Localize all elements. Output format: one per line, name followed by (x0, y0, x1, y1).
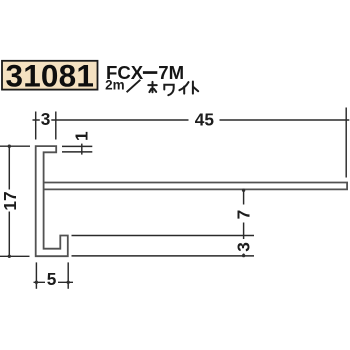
spec text 2m (105, 78, 125, 93)
extension lines of 5 dim (35, 262, 37, 288)
katakana WA (164, 85, 173, 96)
svg-text:45: 45 (195, 110, 215, 130)
svg-text:5: 5 (47, 269, 57, 289)
extension line top of 17 dim (0, 145, 30, 147)
full-width slash (127, 80, 141, 92)
dimension text 5 (45, 269, 58, 289)
extension line right end of 45 dim (345, 108, 347, 178)
product code box 31081 (2, 58, 98, 94)
dimension text 3 vertical (233, 239, 253, 254)
dimension text 45 (189, 110, 220, 130)
terminator dots of 5 dim (35, 281, 38, 284)
dimension line 5 (34, 281, 74, 283)
svg-text:17: 17 (0, 191, 20, 210)
svg-text:3: 3 (233, 242, 253, 252)
extension line bottom of 7/3 dim (72, 255, 255, 257)
svg-text:3: 3 (41, 109, 51, 129)
svg-text:1: 1 (72, 131, 92, 141)
terminator dots of 7/3 dim (242, 189, 245, 192)
dimension text 3 (40, 109, 52, 129)
extension lines of 1 dim (62, 145, 92, 147)
terminator dots of 17 dim (8, 145, 11, 148)
extension line middle of 7/3 dim (72, 235, 255, 237)
product name FCX-7M (106, 62, 184, 83)
extension line right of 3 dim (55, 112, 57, 140)
profile main outline (36, 146, 68, 256)
katakana TO (193, 82, 198, 94)
extension line left of 3 dim (35, 112, 37, 140)
dimension line 7 and 3 (243, 190, 245, 256)
svg-text:31081: 31081 (5, 58, 94, 94)
dimension tick of 1 dim (81, 144, 83, 155)
katakana HO (148, 82, 156, 92)
svg-text:7: 7 (233, 210, 253, 220)
extension line bottom of 17 dim (0, 255, 30, 257)
dimension line 17 (8, 146, 10, 256)
dimension text 7 (233, 205, 253, 223)
svg-text:7M: 7M (158, 62, 184, 83)
katakana I (179, 82, 188, 94)
dimension line 3 and 45 (33, 119, 350, 121)
dimension text 17 (0, 190, 20, 212)
profile 45mm arm (44, 183, 348, 190)
svg-text:2m: 2m (105, 78, 125, 93)
